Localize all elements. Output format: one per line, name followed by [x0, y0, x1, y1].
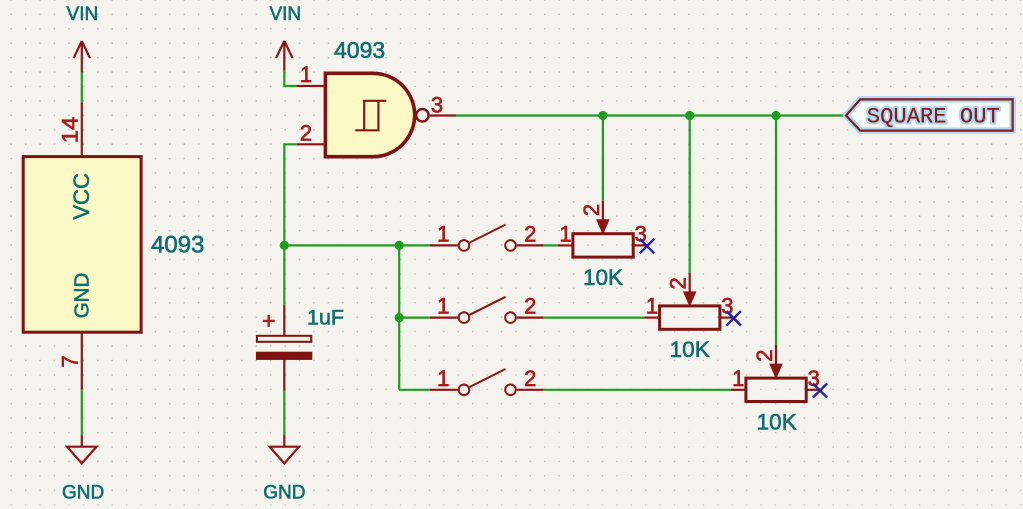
- svg-text:1: 1: [437, 221, 449, 246]
- wire to switch SW3 pin1: [399, 389, 430, 391]
- wire SW1 to RV1: [544, 244, 558, 246]
- svg-text:SQUARE OUT: SQUARE OUT: [867, 105, 1000, 130]
- wire junction to switches branch: [284, 244, 399, 246]
- wire junction2 down to RV2 wiper: [689, 116, 691, 273]
- switch SW1: [430, 221, 544, 250]
- wire switch column vertical: [398, 245, 400, 389]
- wire SW3 to RV3: [544, 389, 731, 391]
- svg-text:1: 1: [437, 294, 449, 319]
- svg-text:VIN: VIN: [67, 4, 99, 25]
- U1 pin 14: [58, 102, 83, 156]
- potentiometer RV3 10K: [731, 345, 820, 434]
- svg-text:1: 1: [732, 366, 744, 391]
- wire to switch SW1 pin1: [399, 244, 430, 246]
- svg-text:1: 1: [559, 221, 571, 246]
- junction switch column top: [395, 241, 404, 250]
- svg-text:4093: 4093: [334, 37, 385, 63]
- IC U1 4093 power unit body: [23, 157, 204, 333]
- switch SW2: [430, 294, 544, 323]
- svg-text:1: 1: [437, 366, 449, 391]
- wire U1A pin 2 feedback: [284, 144, 296, 245]
- svg-text:2: 2: [524, 366, 536, 391]
- wire junction to capacitor: [283, 245, 285, 305]
- junction on output wire 3: [771, 111, 780, 120]
- no-connect X on RV2 pin3: [727, 311, 741, 325]
- wire VIN to U1 pin 14: [81, 72, 83, 102]
- wire SW2 to RV2: [544, 317, 645, 319]
- no-connect X on RV3 pin3: [813, 383, 827, 397]
- schmitt NAND gate U1A 4093: [325, 37, 414, 157]
- svg-text:4093: 4093: [151, 232, 204, 259]
- U1A pin 1: [297, 62, 326, 87]
- svg-text:2: 2: [752, 349, 777, 361]
- svg-text:1uF: 1uF: [307, 305, 344, 329]
- svg-text:2: 2: [524, 294, 536, 319]
- wire junction1 down to RV1 wiper: [602, 116, 604, 201]
- svg-text:GND: GND: [62, 483, 104, 504]
- U1 pin 7: [58, 332, 83, 389]
- svg-text:3: 3: [431, 93, 443, 118]
- ground symbol GND #PWR02: [62, 435, 104, 503]
- svg-text:10K: 10K: [583, 265, 623, 290]
- wire U1 pin 7 to GND: [81, 390, 83, 436]
- svg-text:14: 14: [58, 117, 83, 144]
- svg-text:1: 1: [300, 62, 312, 87]
- output wire to SQUARE OUT: [456, 114, 846, 116]
- switch SW3: [430, 366, 544, 395]
- schmitt trigger mark: [355, 101, 386, 131]
- svg-text:VIN: VIN: [269, 4, 301, 25]
- junction on output wire 1: [598, 111, 607, 120]
- hierarchical label SQUARE OUT: [846, 99, 1013, 130]
- wire junction3 down to RV3 wiper: [775, 116, 777, 346]
- potentiometer RV2 10K: [644, 273, 734, 362]
- junction on output wire 2: [685, 111, 694, 120]
- ground symbol GND #PWR04: [263, 435, 305, 504]
- svg-text:10K: 10K: [670, 337, 710, 362]
- svg-text:GND: GND: [263, 483, 305, 504]
- potentiometer RV1 10K: [558, 201, 647, 290]
- junction at cap branch: [280, 241, 289, 250]
- svg-text:2: 2: [579, 204, 604, 216]
- capacitor C1 1uF (polarized): [257, 305, 344, 390]
- svg-text:GND: GND: [70, 273, 93, 319]
- U1A pin 2: [297, 120, 326, 145]
- svg-text:7: 7: [58, 355, 83, 367]
- svg-text:1: 1: [646, 294, 658, 319]
- power symbol VIN #PWR03: [269, 4, 301, 71]
- svg-text:2: 2: [666, 277, 691, 289]
- U1A pin 3: [430, 93, 456, 118]
- wire VIN to U1A pin 1: [284, 71, 296, 86]
- wire to switch SW2 pin1: [399, 317, 430, 319]
- power symbol VIN #PWR01: [67, 4, 99, 73]
- wire cap to GND2: [283, 391, 285, 436]
- svg-text:VCC: VCC: [69, 173, 94, 220]
- svg-text:10K: 10K: [757, 409, 797, 434]
- svg-text:2: 2: [300, 120, 312, 145]
- U1A output inversion bubble: [416, 109, 428, 121]
- no-connect X on RV1 pin3: [640, 239, 654, 253]
- svg-text:2: 2: [524, 221, 536, 246]
- junction switch column middle: [395, 313, 404, 322]
